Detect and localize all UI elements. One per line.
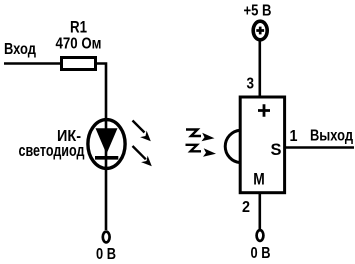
svg-text:1: 1 <box>290 128 298 145</box>
svg-text:S: S <box>271 140 282 159</box>
svg-text:Выход: Выход <box>310 128 353 145</box>
resistor R1 <box>62 58 96 70</box>
wire resistor to LED (node corner) <box>96 64 106 231</box>
LED anode triangle <box>96 128 118 154</box>
svg-text:светодиод: светодиод <box>19 141 85 160</box>
LED cathode bar <box>95 156 118 160</box>
wire +5V to pin 3 <box>258 41 261 98</box>
svg-text:+5 В: +5 В <box>244 3 272 20</box>
svg-text:3: 3 <box>247 76 255 93</box>
LED D1 ИК-светодиод: circle <box>88 120 125 169</box>
svg-text:0 В: 0 В <box>96 246 116 263</box>
pin + label inside <box>258 104 270 116</box>
wire input to resistor <box>4 62 61 65</box>
svg-text:R1: R1 <box>70 18 87 36</box>
svg-text:2: 2 <box>242 199 250 216</box>
+5V terminal circle <box>253 21 267 40</box>
emission arrow 2 <box>133 146 152 166</box>
lens dome <box>225 130 240 162</box>
IR receiver module U1 box <box>240 97 284 193</box>
emission arrow 1 <box>133 121 151 142</box>
IR input arrow 2 (zigzag) <box>186 145 217 157</box>
svg-text:Вход: Вход <box>4 41 36 58</box>
wire pin 1 output <box>285 146 354 148</box>
wire pin 2 to 0V <box>258 193 261 230</box>
svg-text:470 Ом: 470 Ом <box>56 35 102 52</box>
svg-text:M: M <box>253 170 265 189</box>
+5V terminal plus sign <box>256 27 264 35</box>
terminal 0V right <box>257 230 264 241</box>
svg-text:0 В: 0 В <box>251 245 271 262</box>
IR input arrow 1 (zigzag) <box>186 130 215 142</box>
terminal 0V left <box>103 232 110 243</box>
